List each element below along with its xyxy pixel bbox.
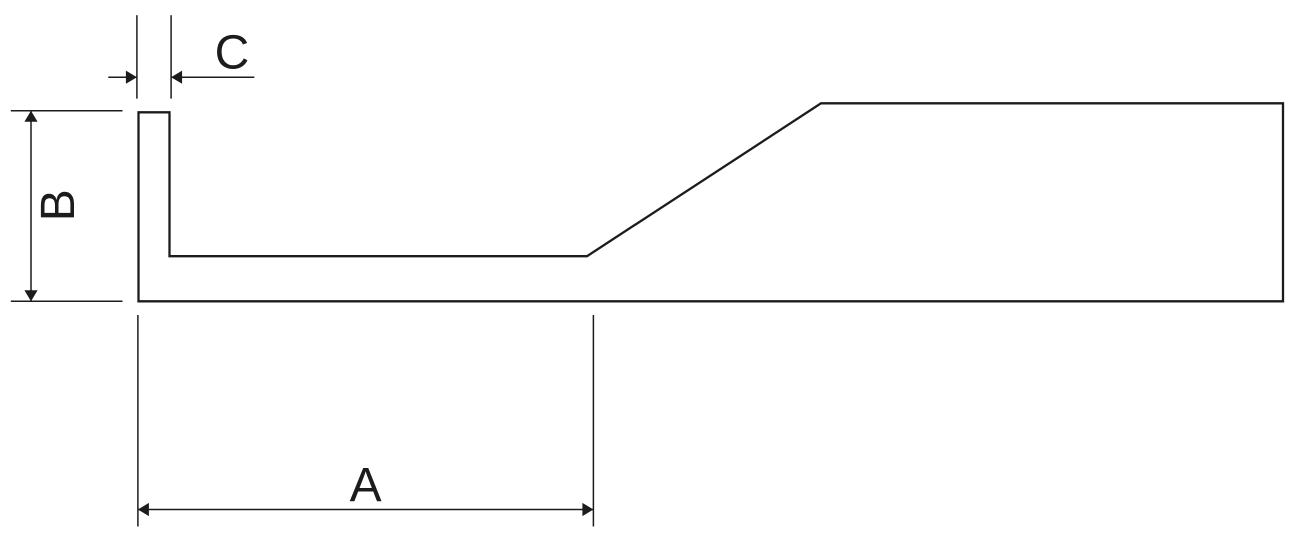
dim B dimension line	[30, 111, 32, 301]
dim A left extension line	[137, 315, 139, 527]
dim C left tail line	[108, 76, 137, 78]
profile outline	[139, 103, 1284, 301]
dim B bottom extension line	[11, 300, 123, 302]
svg-text:B: B	[32, 189, 85, 221]
dim A right extension line	[592, 315, 594, 527]
svg-text:C: C	[215, 27, 250, 80]
svg-text:A: A	[350, 459, 382, 512]
dim A left arrow	[138, 503, 149, 516]
dim B arrow down	[24, 290, 37, 301]
dim B arrow up	[24, 111, 37, 122]
dim C right extension line	[170, 15, 172, 98]
dim A dimension line	[138, 509, 594, 511]
dim A right arrow	[582, 503, 593, 516]
dim C left arrow	[126, 71, 137, 84]
dim C left extension line	[136, 15, 138, 98]
dim C right arrow	[171, 71, 182, 84]
dim B top extension line	[11, 110, 123, 112]
dim C right tail line	[171, 76, 254, 78]
